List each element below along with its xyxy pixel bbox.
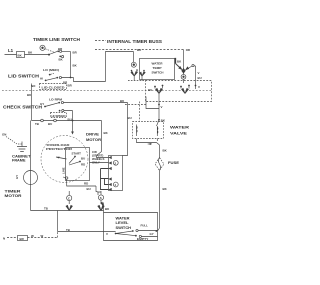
- svg-text:LO RPM: LO RPM: [49, 98, 63, 102]
- wire hot solenoid dashed drop: [139, 102, 141, 122]
- wire TB terminal line: [32, 120, 102, 122]
- svg-text:LINE: LINE: [62, 167, 66, 174]
- neutral connector box: [18, 236, 28, 241]
- svg-text:BU: BU: [87, 187, 91, 191]
- terminal S contact arrows: [98, 200, 104, 210]
- svg-text:LID CLOSED: LID CLOSED: [42, 85, 65, 89]
- dashed separator line (timer boundary): [2, 90, 212, 92]
- svg-text:BK: BK: [163, 187, 168, 191]
- svg-text:TB: TB: [44, 207, 48, 211]
- svg-text:L1: L1: [8, 48, 14, 53]
- svg-text:BK: BK: [161, 119, 166, 123]
- svg-text:LO (MED): LO (MED): [43, 68, 59, 72]
- wire valve feed from contact group 1: [146, 94, 159, 109]
- timer line switch pivot: [48, 54, 50, 56]
- wire drop x102 to drive motor start switch: [97, 121, 109, 158]
- svg-text:VALVE: VALVE: [170, 130, 187, 135]
- timer line switch contact lower: [59, 56, 61, 58]
- svg-text:FULL: FULL: [141, 223, 149, 227]
- svg-text:SWITCH: SWITCH: [152, 71, 164, 75]
- svg-text:BU: BU: [128, 116, 132, 120]
- timer contact group 2 V feed: [195, 85, 197, 87]
- svg-text:V: V: [198, 85, 200, 89]
- dashed link water temp contacts to timer box: [128, 80, 146, 82]
- svg-text:MOTOR: MOTOR: [86, 137, 101, 142]
- motor protector terminal: [66, 177, 68, 179]
- svg-text:FUSE: FUSE: [168, 160, 179, 165]
- wire lid switch output to riser junction: [62, 78, 106, 82]
- wire OR drop from buss: [183, 50, 185, 69]
- svg-text:BK: BK: [105, 207, 110, 211]
- water level switch box: [104, 213, 158, 241]
- terminal 4: [113, 182, 118, 187]
- svg-text:BU: BU: [198, 76, 202, 80]
- internal timer buss dashed line: [95, 49, 184, 51]
- svg-text:V: V: [161, 105, 163, 109]
- svg-text:BU: BU: [48, 122, 52, 126]
- lid switch output contact: [56, 77, 58, 79]
- start switch internals: [74, 156, 76, 158]
- water level switch pivot: [115, 233, 117, 235]
- terminal C contact arrows: [66, 201, 72, 211]
- wire water temp switch to valve node (thick): [175, 59, 176, 64]
- fuse (diamond): [155, 158, 164, 171]
- svg-text:BK: BK: [28, 51, 33, 55]
- lid switch pivot: [45, 80, 47, 82]
- svg-text:BK: BK: [163, 149, 168, 153]
- svg-text:TB: TB: [35, 122, 39, 126]
- check switch blade: [45, 103, 59, 107]
- contact blade right of valve node: [186, 66, 193, 70]
- svg-text:BK: BK: [177, 60, 182, 64]
- svg-text:START: START: [72, 152, 82, 156]
- wire L1 to timer line switch: [5, 54, 50, 56]
- svg-text:WATER: WATER: [152, 62, 164, 66]
- svg-text:BU: BU: [81, 157, 85, 161]
- timer contact box (dashed): [146, 81, 212, 102]
- wire start box to unbalance terminal 2: [90, 162, 109, 164]
- water temp switch contacts: [131, 70, 133, 72]
- water temp switch terminal: [131, 62, 136, 67]
- valve blade: [157, 120, 160, 126]
- svg-text:EMPTY: EMPTY: [137, 237, 149, 241]
- water temp switch box: [140, 59, 175, 80]
- wire motor winding feeds to unbalance 4: [101, 169, 109, 190]
- wire drop x57 to lower line: [57, 211, 59, 232]
- svg-text:INTERNAL TIMER BUSS: INTERNAL TIMER BUSS: [107, 39, 162, 44]
- wire V riser x196: [195, 66, 197, 80]
- cold solenoid: [156, 126, 159, 136]
- check switch lower contact: [59, 110, 61, 112]
- svg-text:LID SWITCH: LID SWITCH: [8, 74, 39, 79]
- wire solenoid returns join BK riser: [137, 139, 160, 146]
- svg-text:BU: BU: [68, 118, 72, 122]
- svg-text:FRAME: FRAME: [12, 158, 26, 163]
- wire BR riser x71 down to lid switch output: [70, 52, 72, 78]
- svg-text:4: 4: [115, 183, 117, 187]
- fuse box at line input: [17, 52, 25, 58]
- wire upper contact to BR riser: [62, 51, 71, 53]
- overload contact arrow: [56, 157, 67, 159]
- svg-text:BK: BK: [137, 48, 142, 52]
- svg-text:BK: BK: [18, 54, 23, 58]
- motor terminal S: [98, 195, 103, 200]
- svg-text:GY: GY: [15, 175, 19, 179]
- check switch pivot: [44, 106, 46, 108]
- check switch upper contact: [58, 102, 60, 104]
- svg-text:HI: HI: [40, 77, 43, 81]
- timer line switch mechanical link (dashed): [45, 49, 55, 53]
- svg-text:HI SPEED: HI SPEED: [52, 114, 66, 118]
- terminal 2: [113, 160, 118, 165]
- check switch state box HI SPEED (dashed): [51, 113, 67, 118]
- wire bottom TB line: [31, 210, 104, 212]
- drive motor outline (dashed circle): [41, 136, 88, 183]
- terminal TB open circles: [41, 119, 44, 122]
- wire feed down to water temp switch terminal: [133, 52, 135, 63]
- unbalance switch contact arrows: [109, 156, 112, 191]
- svg-text:TB: TB: [66, 228, 70, 232]
- neutral dashed line continues: [28, 232, 58, 238]
- svg-text:OR: OR: [186, 48, 191, 52]
- unbalance switch box: [109, 156, 123, 191]
- svg-text:W: W: [41, 234, 44, 238]
- timer motor (circle): [24, 171, 38, 185]
- wire dashed leader to INTERNAL TIMER BUSS: [95, 40, 106, 42]
- svg-text:BK: BK: [59, 58, 64, 62]
- svg-text:GY: GY: [150, 232, 154, 236]
- svg-text:GY: GY: [40, 102, 44, 106]
- motor terminal C: [67, 195, 72, 200]
- svg-text:BR: BR: [73, 51, 78, 55]
- wire BK riser fuse to water level switch: [159, 171, 161, 229]
- svg-text:BK: BK: [73, 64, 78, 68]
- wire water level box to main BK riser: [158, 228, 160, 231]
- svg-text:BK: BK: [104, 131, 109, 135]
- svg-text:RD: RD: [84, 182, 88, 186]
- wire check switch upper output long run to unbalance riser: [64, 102, 128, 104]
- wire full contact to box edge: [138, 231, 157, 237]
- hot solenoid: [136, 125, 139, 137]
- junction diamond at water valve node: [181, 68, 185, 74]
- svg-text:CHECK SWITCH: CHECK SWITCH: [3, 105, 42, 110]
- svg-text:BR: BR: [68, 84, 73, 88]
- timer terminal below valve node: [181, 74, 186, 79]
- timer line switch blade: [49, 51, 57, 54]
- timer contact group 1: [154, 86, 156, 88]
- lid switch upper contact dot: [49, 74, 51, 76]
- svg-text:GN: GN: [2, 133, 6, 137]
- ground (cabinet frame): [17, 142, 27, 152]
- svg-text:DRIVE: DRIVE: [86, 132, 99, 137]
- timer contact group 2: [180, 86, 182, 88]
- svg-text:N: N: [3, 237, 5, 241]
- water level switch contacts: [132, 230, 134, 232]
- water level switch blades: [116, 231, 136, 236]
- wire riser x127.4 from check switch line to unbalance box: [123, 103, 128, 156]
- svg-text:V: V: [106, 232, 108, 236]
- svg-text:TEMP: TEMP: [153, 66, 162, 70]
- water valve box (dashed): [133, 122, 164, 139]
- svg-text:MOTOR: MOTOR: [5, 193, 22, 198]
- wire BK riser to fuse: [159, 145, 161, 158]
- drive motor start switch box: [66, 148, 90, 181]
- wire S terminal riser to water level box: [101, 202, 104, 212]
- wire check switch lower output drop to drive motor: [64, 111, 73, 134]
- lid switch state box LID CLOSED (dashed): [40, 84, 67, 90]
- wire lower line to water level switch pivot: [58, 231, 116, 233]
- svg-text:BU: BU: [148, 88, 152, 92]
- timer line switch contact upper: [57, 50, 59, 52]
- svg-text:BR: BR: [58, 47, 63, 51]
- svg-text:SWITCH: SWITCH: [116, 225, 132, 230]
- wire main V line down to valve: [158, 105, 160, 121]
- wire left drop x30 check switch to bottom TB line: [30, 121, 32, 211]
- lid switch blade: [46, 78, 58, 81]
- svg-text:W: W: [31, 234, 34, 238]
- wire lid switch NO drop x31: [31, 84, 33, 121]
- svg-text:V: V: [198, 71, 200, 75]
- svg-text:S: S: [100, 196, 102, 200]
- dashed stub below timer box: [125, 104, 146, 106]
- svg-text:RD: RD: [81, 163, 85, 167]
- svg-text:WATER: WATER: [170, 124, 189, 129]
- svg-text:TIMER LINE SWITCH: TIMER LINE SWITCH: [33, 37, 80, 42]
- wire riser x106 up to top feed: [106, 52, 134, 82]
- timer line switch terminal P: [40, 45, 45, 50]
